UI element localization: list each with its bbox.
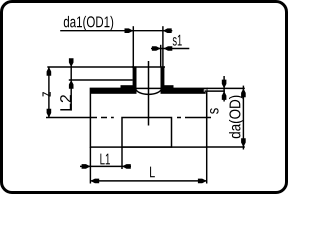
socket depth line (L2 reference) bbox=[69, 79, 133, 81]
dimension da(OD) label bbox=[229, 96, 244, 139]
dimension L1 label bbox=[100, 154, 110, 165]
dimension s label bbox=[210, 108, 219, 114]
body top wall fill right bbox=[161, 88, 206, 94]
vertical centerline bbox=[148, 61, 150, 126]
branch right wall bbox=[161, 66, 165, 88]
inner socket rectangle bbox=[122, 118, 172, 148]
da(OD) bottom extension bbox=[207, 146, 245, 148]
da1 right extension bbox=[162, 26, 164, 66]
L right arrow bbox=[198, 179, 207, 184]
dimension L2 label bbox=[60, 95, 71, 110]
dimension z line bbox=[48, 67, 50, 118]
L2 bottom arrow bbox=[69, 80, 74, 89]
dimension da1(OD1) label bbox=[64, 16, 113, 31]
dimension da1 line bbox=[60, 30, 172, 32]
s1 left arrow bbox=[152, 46, 161, 51]
left fillet bump bbox=[121, 85, 137, 91]
border frame bbox=[2, 2, 287, 193]
horizontal centerline dash-dot bbox=[46, 117, 211, 119]
L1 left extension bbox=[89, 147, 91, 169]
s bottom arrow bbox=[222, 91, 227, 100]
branch top extension line (z/L2 reference) bbox=[47, 66, 132, 68]
branch bore dome arc bbox=[136, 89, 162, 95]
L1 right arrow bbox=[122, 164, 131, 169]
dimension s line bbox=[223, 76, 225, 102]
dimension L line bbox=[90, 180, 206, 182]
da(OD) bottom arrow bbox=[241, 138, 246, 147]
L1 right extension bbox=[121, 147, 123, 169]
branch top edge bbox=[132, 66, 165, 68]
da1 left extension bbox=[132, 26, 134, 66]
s / da(OD) shared top extension bbox=[207, 87, 245, 89]
L right extension bbox=[206, 147, 208, 184]
dimension L1 line bbox=[80, 165, 131, 167]
s1 right arrow bbox=[164, 46, 173, 51]
L2 top arrow bbox=[69, 58, 74, 67]
body outline bbox=[90, 88, 206, 147]
body top wall fill left bbox=[90, 88, 137, 94]
branch left wall bbox=[133, 66, 137, 88]
right fillet bump bbox=[161, 85, 174, 91]
dimension da(OD) line bbox=[242, 86, 244, 150]
s1 inner extension bbox=[160, 45, 162, 67]
da(OD) top arrow bbox=[241, 88, 246, 97]
z top arrow bbox=[47, 67, 52, 76]
dimension L label bbox=[150, 167, 155, 178]
spigot end thin wall (right) bbox=[204, 89, 207, 92]
da1 right arrow bbox=[163, 28, 172, 33]
dimension L2 line bbox=[70, 59, 72, 111]
s top arrow bbox=[222, 80, 227, 89]
L1 left arrow bbox=[82, 164, 91, 169]
dimension s1 label bbox=[173, 35, 182, 46]
s bottom extension tick bbox=[205, 90, 225, 92]
L left arrow bbox=[90, 179, 99, 184]
dimension s1 line bbox=[151, 48, 189, 50]
z bottom arrow bbox=[47, 109, 52, 118]
dimension z label bbox=[42, 92, 50, 97]
da1 left arrow bbox=[125, 28, 134, 33]
L left extension (shared with L1) bbox=[89, 169, 91, 184]
